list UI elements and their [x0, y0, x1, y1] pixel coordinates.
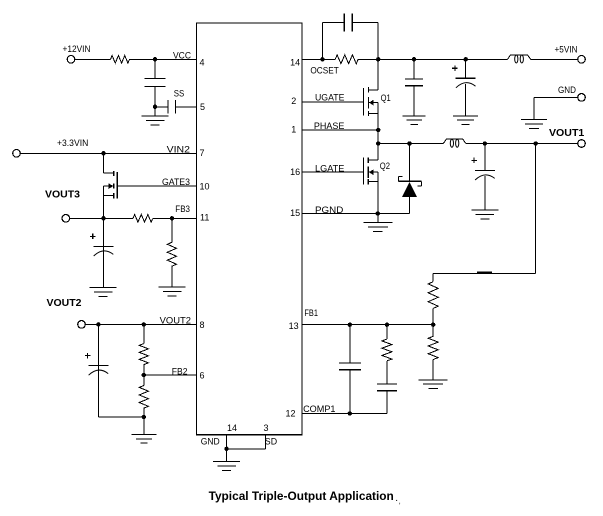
ground (C7): [453, 115, 478, 117]
svg-text:COMP1: COMP1: [303, 404, 335, 414]
ground (FB3 resistor): [159, 286, 186, 288]
svg-text:14: 14: [290, 57, 300, 67]
wire C7 to ground: [465, 84, 467, 116]
wire C1 to ground node: [154, 87, 156, 117]
transistor Q3 (linear pass MOSFET): [116, 172, 118, 198]
wire Q3 source/body down to VOUT3 node: [103, 186, 105, 218]
ground (FB1 divider): [419, 379, 448, 381]
wire VOUT3 to R2: [70, 217, 133, 219]
capacitor C3 (VOUT3 electrolytic): [94, 245, 114, 247]
wire rail down to C7: [465, 59, 467, 78]
transistor Q2 (lower MOSFET): [368, 159, 378, 161]
svg-text:GND: GND: [201, 437, 220, 447]
wire D1 anode to PGND node: [409, 197, 411, 213]
svg-text:6: 6: [200, 370, 205, 380]
inductor L2 (VOUT1 output): [443, 139, 466, 143]
svg-text:2: 2: [291, 96, 296, 106]
svg-text:Typical Triple-Output Applicat: Typical Triple-Output Application: [209, 491, 394, 503]
wire R9 to C10: [386, 361, 388, 384]
svg-text:14: 14: [227, 423, 237, 433]
capacitor C4 (VOUT2 electrolytic): [88, 365, 108, 367]
wire OCSET node up to C5: [321, 22, 323, 59]
svg-text:FB3: FB3: [175, 204, 190, 214]
wire R7 to FB1 node: [432, 308, 434, 336]
svg-text:VOUT2: VOUT2: [47, 298, 82, 309]
svg-text:SS: SS: [174, 89, 185, 99]
wire R1 to VCC pin 4: [130, 58, 197, 60]
ground (IC GND): [213, 461, 240, 463]
svg-text:,: ,: [399, 499, 401, 506]
svg-text:5: 5: [200, 102, 205, 112]
svg-text:VOUT3: VOUT3: [45, 190, 80, 201]
svg-text:+12VIN: +12VIN: [63, 44, 91, 54]
svg-text:FB1: FB1: [304, 308, 318, 318]
wire VCC node down to C1: [154, 59, 156, 78]
wire VIN2 node down to Q3 drain: [103, 153, 105, 173]
capacitor C2 (soft-start): [167, 100, 169, 114]
wire C6 to ground: [413, 86, 415, 116]
wire FB1 node down to C9: [349, 325, 351, 363]
svg-text:1: 1: [291, 125, 296, 135]
ground (GND terminal): [521, 119, 547, 121]
wire VOUT2 node down to R4: [143, 324, 145, 343]
wire Q2 source down to PGND node: [377, 172, 379, 213]
ground (C8): [471, 209, 498, 211]
svg-text:12: 12: [285, 409, 295, 419]
wire C5 down to Q1 drain node: [352, 21, 378, 23]
wire VOUT2 to pin 8: [85, 323, 196, 325]
wire R5 to bottom node: [143, 408, 145, 417]
wire Q1 source down through PHASE node to Q2 drain: [377, 103, 379, 161]
diode D1: [399, 180, 422, 182]
wire pin 14 to R6: [302, 58, 335, 60]
capacitor C8 (VOUT1 electrolytic): [475, 169, 495, 171]
svg-text:8: 8: [200, 320, 205, 330]
svg-text:Q2: Q2: [380, 161, 390, 171]
svg-text:3: 3: [264, 423, 269, 433]
capacitor C7 (+5VIN electrolytic): [456, 77, 476, 79]
wire +12VIN to R1: [75, 58, 111, 60]
terminal VOUT2: [78, 321, 86, 329]
wire bottom node down to ground: [143, 417, 145, 435]
svg-text:VOUT1: VOUT1: [549, 128, 585, 139]
capacitor C1 (VCC decoupling): [145, 78, 166, 80]
wire phase node to L2: [378, 143, 443, 145]
svg-text:UGATE: UGATE: [315, 93, 344, 103]
wire VOUT1 node down to feedback: [535, 144, 537, 274]
wire VOUT3 node down to C3: [103, 218, 105, 287]
svg-text:+5VIN: +5VIN: [555, 44, 578, 54]
ground (VCC cap): [142, 115, 169, 117]
diode D1 (schottky) wire from phase node: [409, 144, 411, 182]
wire L1 to +5VIN terminal: [531, 58, 578, 60]
transistor Q1 (upper MOSFET): [363, 88, 365, 116]
wire FB3 node down to R3: [171, 218, 173, 242]
svg-text:4: 4: [200, 58, 205, 68]
wire C8 to ground: [484, 176, 486, 210]
svg-text:11: 11: [200, 213, 209, 223]
wire thick segment on feedback run: [477, 272, 492, 274]
wire GND terminal to ground: [534, 96, 578, 98]
terminal VOUT1: [578, 140, 586, 148]
wire C10 to COMP1 wire end: [386, 391, 388, 414]
wire L2 to VOUT1 terminal: [466, 143, 578, 145]
wire GND node to ground: [224, 447, 228, 451]
resistor R8 (FB1 lower divider): [428, 336, 438, 359]
svg-text:OCSET: OCSET: [310, 66, 339, 76]
wire R4 to FB2 node: [143, 365, 145, 375]
op-amp controller IC U1: [197, 23, 303, 435]
ground (VOUT2 divider): [131, 433, 156, 435]
wire VOUT2 node down to C4: [97, 324, 99, 417]
svg-text:SD: SD: [265, 437, 278, 447]
resistor R3 (FB3 pulldown): [167, 242, 176, 266]
wire VOUT1 rail down to C8: [484, 144, 486, 171]
wire FB1 node down to R9: [386, 325, 388, 339]
svg-text:Q1: Q1: [381, 93, 391, 103]
resistor R6 (OCSET): [335, 55, 358, 64]
wire feedback top horizontal: [433, 273, 536, 275]
ground (PGND): [377, 214, 379, 223]
wire FB2 node down to R5: [143, 375, 145, 386]
wire bottom node to C4 branch: [98, 416, 143, 418]
resistor R4 (FB2 upper divider): [139, 344, 148, 365]
inductor L1 (+5VIN input): [508, 55, 531, 59]
svg-text:.: .: [395, 493, 398, 504]
svg-text:GATE3: GATE3: [162, 177, 190, 187]
svg-text:+3.3VIN: +3.3VIN: [57, 138, 88, 148]
wire C9 to COMP1 node: [349, 370, 351, 414]
resistor R7 (FB1 upper divider): [428, 282, 438, 309]
resistor R9 (compensation): [382, 339, 392, 361]
capacitor C10 (compensation): [377, 383, 397, 385]
svg-text:GND: GND: [558, 85, 576, 95]
ground (C6): [403, 115, 426, 117]
wire R2 to FB3 pin 11: [153, 217, 197, 219]
terminal VOUT3: [62, 215, 70, 223]
ground (VOUT3 cap): [90, 287, 117, 289]
capacitor C6 (+5VIN ceramic): [405, 78, 423, 80]
resistor R2 (FB3 series): [133, 215, 153, 223]
capacitor C5 (across OCSET resistor): [343, 13, 345, 31]
svg-text:13: 13: [289, 321, 299, 331]
svg-text:16: 16: [290, 167, 300, 177]
capacitor C9 (compensation): [339, 362, 361, 364]
wire R6 to +5VIN rail: [358, 58, 507, 60]
wire +3.3VIN to VIN2 pin 7: [20, 152, 196, 154]
svg-text:15: 15: [290, 208, 300, 218]
svg-text:7: 7: [200, 148, 205, 158]
wire R8 to ground: [432, 360, 434, 380]
wire rail down to C6: [413, 59, 415, 79]
wire C2 to SS pin 5: [175, 106, 196, 108]
resistor R5 (FB2 lower divider): [139, 386, 148, 409]
wire Q1 drain up to OCSET node: [377, 59, 379, 90]
wire down to R7: [432, 274, 434, 282]
svg-text:10: 10: [200, 182, 210, 192]
wire ground node to C2: [155, 106, 168, 108]
wire R3 to ground: [171, 266, 173, 287]
resistor R1: [111, 56, 130, 64]
